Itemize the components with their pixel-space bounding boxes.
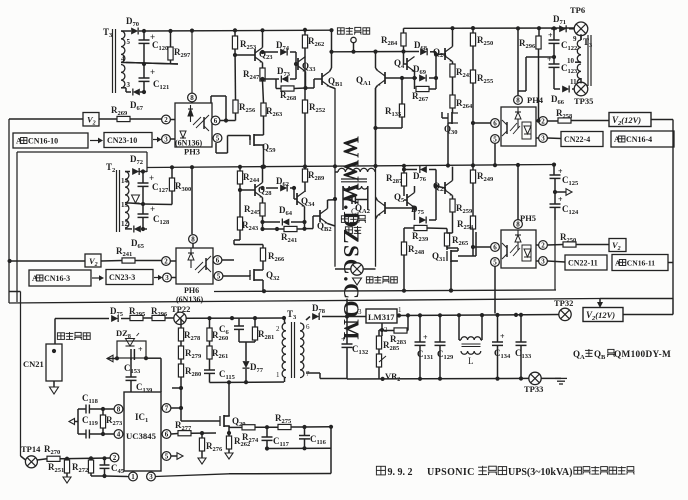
svg-text:1: 1	[131, 473, 135, 481]
node	[552, 55, 556, 59]
junction nodes	[329, 50, 333, 54]
ground earth	[555, 377, 567, 379]
svg-text:LM317: LM317	[368, 312, 395, 322]
transistor Q29 (MOSFET)	[220, 415, 230, 427]
pot VR2	[376, 354, 381, 367]
transistor Q59 (MOSFET)	[250, 134, 260, 146]
pin 8 PH5	[514, 220, 523, 229]
wire QA1 emitter drop	[375, 88, 377, 267]
svg-text:4: 4	[117, 431, 121, 439]
transformer center	[338, 168, 375, 172]
capacitor C124	[554, 192, 556, 204]
svg-text:8: 8	[516, 221, 520, 229]
wire loop	[234, 244, 263, 246]
svg-text:5: 5	[216, 135, 220, 143]
node	[142, 62, 146, 66]
dash link	[154, 277, 159, 279]
transistor Q23	[255, 48, 263, 63]
svg-text:4: 4	[121, 55, 125, 63]
wire mid	[130, 203, 143, 204]
resistor R245	[450, 64, 455, 77]
transistor Q33	[298, 57, 306, 72]
svg-text:+: +	[341, 335, 346, 344]
wire bottom rail	[210, 381, 285, 384]
node	[233, 28, 237, 32]
svg-text:6: 6	[493, 244, 497, 252]
svg-text:5: 5	[217, 273, 221, 281]
resistor R250	[471, 26, 475, 30]
wire bus H1 right	[404, 27, 576, 29]
wire right rail	[651, 119, 673, 121]
resistor R273	[100, 415, 105, 428]
svg-text:3: 3	[165, 274, 169, 282]
pin 3 PH4	[539, 134, 548, 143]
box LM317	[366, 309, 397, 323]
svg-text:+: +	[423, 333, 428, 342]
wire corner from box	[17, 151, 147, 153]
wire CN16-11 to rail	[668, 262, 673, 264]
pin 6 PH4	[491, 119, 500, 128]
resistor R262b	[226, 436, 231, 449]
resistor R256	[233, 100, 238, 113]
wire CN22-11	[547, 261, 565, 262]
resistor R276	[199, 438, 204, 451]
svg-text:6: 6	[216, 257, 220, 265]
resistor R262t	[303, 28, 307, 32]
capacitor C127	[142, 172, 144, 184]
wire CN22-4	[547, 137, 561, 140]
pin 2 PH4	[539, 117, 548, 126]
wire QB1 base	[314, 78, 322, 80]
resistor R248	[401, 242, 406, 255]
node	[190, 29, 194, 33]
optocoupler PH3 (6N136)	[175, 103, 212, 147]
pin 3 PH5	[539, 257, 548, 266]
capacitor C121	[143, 64, 145, 78]
pin 5 PH3	[213, 134, 222, 143]
node	[168, 29, 172, 33]
resistor R266	[260, 248, 265, 261]
resistor R239	[414, 225, 427, 230]
wire	[139, 171, 147, 173]
svg-text:10: 10	[567, 57, 575, 65]
node	[142, 90, 146, 94]
svg-text:3: 3	[164, 136, 168, 144]
capacitor C115	[204, 369, 215, 371]
transistor QA1	[377, 71, 385, 86]
svg-text:PH6: PH6	[184, 286, 199, 295]
wire	[172, 387, 181, 389]
wire	[447, 232, 453, 234]
caption	[376, 466, 634, 478]
wire pin5 arrow	[171, 455, 177, 457]
resistor R264	[450, 95, 455, 108]
wire Q31	[457, 248, 459, 251]
svg-text:3: 3	[541, 258, 545, 266]
svg-text:7: 7	[165, 405, 169, 413]
resistor R278	[180, 318, 182, 328]
resistor R277	[178, 431, 191, 436]
transistor Q5	[407, 193, 415, 208]
diode D70	[131, 28, 138, 35]
resistor R263	[261, 103, 266, 116]
wire pin3 out	[155, 474, 229, 477]
wire right loop	[330, 427, 332, 474]
svg-text:C: C	[351, 206, 357, 216]
wire H4 arrow to V2d	[599, 299, 601, 304]
wire	[580, 78, 582, 83]
svg-text:L: L	[468, 356, 474, 366]
transistor Q28	[255, 183, 263, 198]
lamp center	[351, 263, 363, 275]
resistor R241b	[101, 260, 122, 263]
wire bus DC y51	[332, 51, 420, 53]
wire rail	[91, 475, 105, 477]
node	[553, 190, 557, 194]
pin 4 IC	[114, 430, 123, 439]
svg-text:+: +	[138, 345, 143, 354]
wire QB1 emitter drop	[334, 88, 336, 267]
wire QA1 emitter	[375, 88, 377, 165]
box V2b	[85, 254, 101, 267]
box A-CN16-11	[612, 255, 668, 271]
resistor R274	[242, 425, 255, 430]
node	[141, 169, 145, 173]
wire	[541, 377, 561, 379]
wire	[10, 260, 85, 262]
wire QA1 base	[385, 77, 415, 79]
ground tri	[353, 278, 362, 285]
transistor Q24	[445, 47, 453, 62]
capacitor C116	[304, 427, 306, 436]
node	[141, 202, 145, 206]
resistor R252	[302, 100, 307, 113]
label DC supply b	[57, 333, 64, 340]
dash link	[153, 139, 158, 141]
capacitor C6	[238, 318, 240, 326]
svg-text:14: 14	[121, 177, 129, 185]
resistor R295	[130, 315, 143, 320]
wire bus H3	[214, 290, 556, 292]
label inverter output	[341, 216, 348, 223]
pin 6 IC	[162, 430, 171, 439]
wire p5 loop	[223, 275, 250, 277]
pin 6 PH6	[213, 256, 222, 265]
capacitor C125	[553, 165, 555, 175]
pin 5 PH5	[491, 258, 500, 267]
wire from CN21 up	[54, 319, 56, 345]
resistor R253	[234, 30, 236, 36]
wire QA2 base	[385, 207, 415, 209]
capacitor C134	[497, 315, 499, 342]
svg-text:CN22-4: CN22-4	[564, 135, 590, 144]
wire p6 to R256	[220, 120, 236, 122]
resistor R281	[254, 318, 256, 327]
wire tap	[580, 61, 582, 63]
resistor R243	[237, 217, 242, 230]
svg-text:PH5: PH5	[520, 213, 536, 223]
wire QB2 collector	[328, 199, 336, 201]
transistor QB1	[322, 72, 330, 87]
resistor R259	[450, 199, 455, 212]
svg-text:3: 3	[149, 473, 153, 481]
wire	[234, 49, 237, 100]
capacitor C center	[351, 195, 353, 204]
pin 2 PH5	[539, 241, 548, 250]
capacitor C132	[346, 317, 348, 345]
inductor L	[458, 315, 460, 340]
box CN22-11	[565, 255, 607, 270]
pin 2 PH6	[162, 257, 171, 266]
svg-text:CN21: CN21	[23, 359, 44, 369]
capacitor C117	[266, 427, 268, 437]
pin 2 PH3	[162, 115, 171, 124]
svg-text:6: 6	[306, 323, 310, 331]
svg-text:2: 2	[276, 325, 280, 333]
resistor R297	[170, 31, 172, 47]
wire	[170, 260, 176, 262]
resistor R255	[470, 70, 475, 83]
node	[449, 288, 453, 292]
wire	[126, 30, 131, 32]
svg-text:TP22: TP22	[171, 304, 190, 314]
lamp TP22	[174, 312, 186, 324]
svg-text:2: 2	[541, 118, 545, 126]
wire pin2	[381, 323, 383, 330]
wire QB2 base	[313, 215, 320, 217]
wire pin6 to R277	[171, 433, 178, 436]
pin 6 PH5	[491, 243, 500, 252]
pin 1 IC	[129, 472, 138, 481]
svg-text:6: 6	[214, 117, 218, 125]
wire p5 loop	[215, 143, 217, 153]
resistor R279	[178, 346, 183, 359]
svg-text:3: 3	[541, 135, 545, 143]
lamp TP6	[574, 22, 588, 36]
wire to V2	[9, 118, 83, 120]
wire bus H4	[9, 299, 600, 304]
node	[142, 29, 146, 33]
svg-text:1: 1	[398, 306, 402, 314]
dash link	[90, 140, 98, 142]
pin 3 PH3	[162, 135, 171, 144]
svg-text:2: 2	[164, 116, 168, 124]
optocoupler PH4	[501, 107, 536, 146]
wire Q23 emitter	[262, 63, 264, 69]
resistor R254	[470, 216, 475, 229]
pin 8 PH6	[189, 235, 198, 244]
resistor R261	[207, 346, 212, 359]
transistor Q30 (MOSFET)	[448, 112, 458, 124]
resistor R241	[284, 226, 297, 231]
pin 5 IC	[162, 452, 171, 461]
node	[434, 52, 438, 56]
wire pin8 to H1	[191, 31, 193, 93]
capacitor C133	[520, 315, 522, 342]
node	[115, 356, 119, 360]
lamp TP33	[529, 372, 541, 384]
wire H4 ext	[600, 298, 673, 300]
resistor R258	[547, 120, 558, 122]
wire p6	[222, 259, 234, 261]
wire pin7	[171, 407, 181, 409]
box V2(12V) top	[609, 113, 651, 127]
transistor QA2	[377, 201, 385, 216]
resistor R272	[88, 460, 93, 473]
box CN23-3	[106, 270, 153, 285]
resistor R283	[394, 328, 407, 333]
svg-text:CN23-10: CN23-10	[107, 136, 137, 145]
resistor R280	[178, 364, 183, 377]
box A-CN16-4	[611, 131, 674, 147]
lamp TP14	[25, 456, 37, 468]
svg-text:5: 5	[165, 453, 169, 461]
resistor R135	[401, 78, 403, 104]
box CN22-4	[561, 132, 603, 147]
capacitor C123	[553, 57, 555, 64]
resistor R300	[171, 167, 173, 178]
svg-text:PH4: PH4	[527, 95, 544, 105]
wire Q29 gate	[212, 420, 220, 422]
wire Q31 drain down	[450, 261, 452, 291]
watermark	[339, 136, 364, 341]
label DC supply	[337, 28, 344, 34]
capacitor C128	[142, 204, 144, 214]
wire arrow	[555, 191, 566, 193]
capacitor C131	[419, 315, 421, 342]
svg-text:8: 8	[191, 236, 195, 244]
wire	[234, 239, 240, 241]
svg-text:CN16-10: CN16-10	[28, 136, 58, 145]
resistor R267	[414, 78, 416, 89]
resistor R245b	[260, 203, 265, 216]
optocoupler PH5	[501, 230, 536, 268]
box A-CN16-10	[13, 133, 88, 148]
wire Q33 leads	[305, 72, 307, 89]
resistor R268	[281, 86, 294, 91]
lamp TP35	[574, 82, 588, 96]
wire PH3 p2	[171, 119, 176, 121]
svg-text:12: 12	[121, 220, 129, 228]
svg-text:CN23-3: CN23-3	[109, 273, 135, 282]
pin 5 PH4	[491, 135, 500, 144]
svg-text:UC3845: UC3845	[126, 431, 157, 441]
svg-text:2: 2	[113, 454, 117, 462]
svg-text:UPSONIC: UPSONIC	[427, 467, 475, 478]
wire box	[239, 341, 255, 343]
svg-text:TP32: TP32	[554, 298, 573, 308]
svg-text:CN16-3: CN16-3	[44, 274, 70, 283]
capacitor C129	[439, 315, 441, 342]
svg-text:TP35: TP35	[574, 96, 593, 106]
resistor R287	[403, 166, 405, 173]
wire C mid to PH4	[526, 56, 554, 58]
svg-text:2: 2	[541, 242, 545, 250]
resistor R247	[260, 68, 265, 81]
box CN23-10	[104, 133, 152, 148]
capacitor C45	[104, 458, 106, 465]
svg-text:+: +	[150, 204, 155, 214]
resistor R296b	[152, 315, 165, 320]
svg-text:6: 6	[165, 431, 169, 439]
wire right	[146, 357, 161, 359]
wire PH3 p3	[171, 138, 176, 140]
wire	[344, 316, 366, 318]
svg-text:CN22-11: CN22-11	[568, 258, 598, 267]
resistor R249	[472, 165, 474, 170]
wire	[55, 318, 109, 320]
box V2(12V) bottom	[583, 308, 623, 322]
diode D-mid	[132, 195, 140, 203]
transistor Q25	[445, 181, 453, 196]
wire loop	[77, 409, 79, 434]
diode D67	[133, 89, 140, 96]
transistor Q31 (MOSFET)	[447, 250, 457, 262]
pin 3 IC	[147, 472, 156, 481]
resistor R289	[304, 167, 306, 170]
wire corner loop	[210, 96, 212, 103]
connector CN21	[46, 344, 62, 381]
resistor R260	[209, 318, 211, 328]
wire mid tap	[126, 63, 178, 65]
resistor R250b	[547, 244, 563, 247]
svg-text:TP6: TP6	[570, 5, 585, 15]
box V2 small	[609, 239, 626, 252]
svg-text:8: 8	[516, 97, 520, 105]
wire	[267, 447, 331, 449]
wire H4 to LM317	[346, 299, 348, 316]
resistor R275	[278, 424, 291, 429]
transistor Q34	[297, 192, 305, 207]
box V2	[83, 113, 99, 127]
diode D72	[132, 168, 139, 175]
svg-text:+: +	[548, 31, 553, 40]
pin 2 IC	[110, 453, 119, 462]
wire Q33 collector	[305, 56, 307, 58]
wire drop to Q29	[228, 382, 230, 413]
wire TP22 right	[186, 317, 284, 319]
capacitor C122	[553, 29, 555, 40]
svg-text:7: 7	[306, 370, 310, 378]
svg-text:CN16-11: CN16-11	[627, 258, 655, 267]
box DZ	[117, 341, 146, 358]
capacitor C120	[143, 31, 145, 40]
svg-text:8: 8	[117, 406, 121, 414]
resistor R265	[444, 233, 449, 246]
wire ground rail H5	[347, 377, 530, 380]
wire TP14 up	[20, 292, 22, 457]
node	[141, 227, 145, 231]
svg-text:(6N136): (6N136)	[176, 295, 203, 304]
svg-text:2: 2	[164, 258, 168, 266]
wire LM317 out	[397, 315, 560, 316]
diode D65	[134, 226, 141, 233]
svg-text:TP14: TP14	[21, 444, 41, 454]
dash link	[92, 277, 99, 279]
svg-text:3: 3	[358, 308, 362, 316]
pin 5 PH6	[214, 272, 223, 281]
wire PH6 p8	[191, 167, 193, 234]
svg-text:3: 3	[127, 81, 131, 89]
junction nodes H2	[170, 165, 174, 169]
node	[516, 26, 520, 30]
svg-text:UPS(3~10kVA): UPS(3~10kVA)	[508, 467, 572, 478]
junction nodes H3	[262, 289, 266, 293]
wire PH4 p8	[517, 28, 519, 95]
wire	[306, 372, 320, 374]
wire	[623, 314, 673, 316]
wire	[304, 191, 306, 194]
